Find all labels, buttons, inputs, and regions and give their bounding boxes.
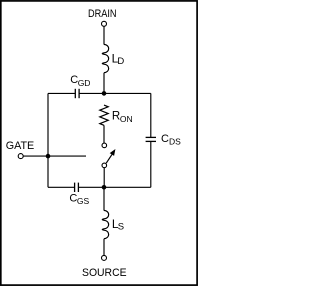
node gate junction: [46, 154, 51, 159]
label LS value: [112, 217, 124, 233]
wire gate lead: [23, 155, 86, 157]
label CDS value: [161, 133, 181, 147]
svg-text:ON: ON: [120, 114, 133, 124]
wire RON to switch: [103, 125, 105, 143]
wire bottom rail CGS to right rail: [78, 186, 150, 188]
wire top rail CGD to right rail: [79, 92, 151, 94]
capacitor CGS: [75, 183, 79, 192]
node drain junction: [102, 91, 107, 96]
svg-text:DRAIN: DRAIN: [88, 8, 117, 20]
wire bottom rail left of CGS: [48, 186, 75, 188]
switch S1 blade: [106, 154, 112, 163]
switch S1 top contact: [102, 143, 107, 148]
svg-text:GATE: GATE: [6, 140, 35, 152]
switch S1 arrowhead: [110, 149, 116, 156]
svg-text:GD: GD: [78, 78, 91, 88]
svg-text:S: S: [118, 222, 124, 233]
wire right rail upper: [150, 93, 152, 137]
terminal SOURCE: [102, 255, 107, 260]
wire drain terminal to LD: [103, 27, 105, 45]
label LD value: [112, 52, 125, 67]
capacitor CDS: [146, 137, 156, 141]
wire top rail left of CGD: [48, 92, 75, 94]
label CGS value: [69, 193, 89, 207]
capacitor CGD: [75, 89, 79, 98]
label RON value: [112, 111, 133, 125]
wire right rail lower: [150, 142, 152, 188]
node source junction: [102, 185, 107, 190]
wire switch to source node: [103, 168, 105, 188]
svg-text:SOURCE: SOURCE: [82, 267, 127, 279]
wire source node to LS: [103, 187, 105, 210]
wire LS to source terminal: [103, 239, 105, 256]
svg-text:GS: GS: [77, 196, 90, 206]
inductor LS: [102, 210, 108, 238]
svg-text:C: C: [161, 133, 169, 145]
inductor LD: [102, 44, 108, 72]
switch S1 bottom contact: [102, 163, 107, 168]
svg-text:DS: DS: [169, 137, 181, 147]
terminal GATE: [18, 154, 23, 159]
resistor RON: [100, 105, 108, 125]
svg-text:D: D: [117, 56, 124, 67]
wire left rail: [47, 93, 49, 187]
label CGD value: [70, 74, 90, 88]
wire LD to drain node: [103, 73, 105, 94]
terminal DRAIN: [102, 21, 107, 26]
